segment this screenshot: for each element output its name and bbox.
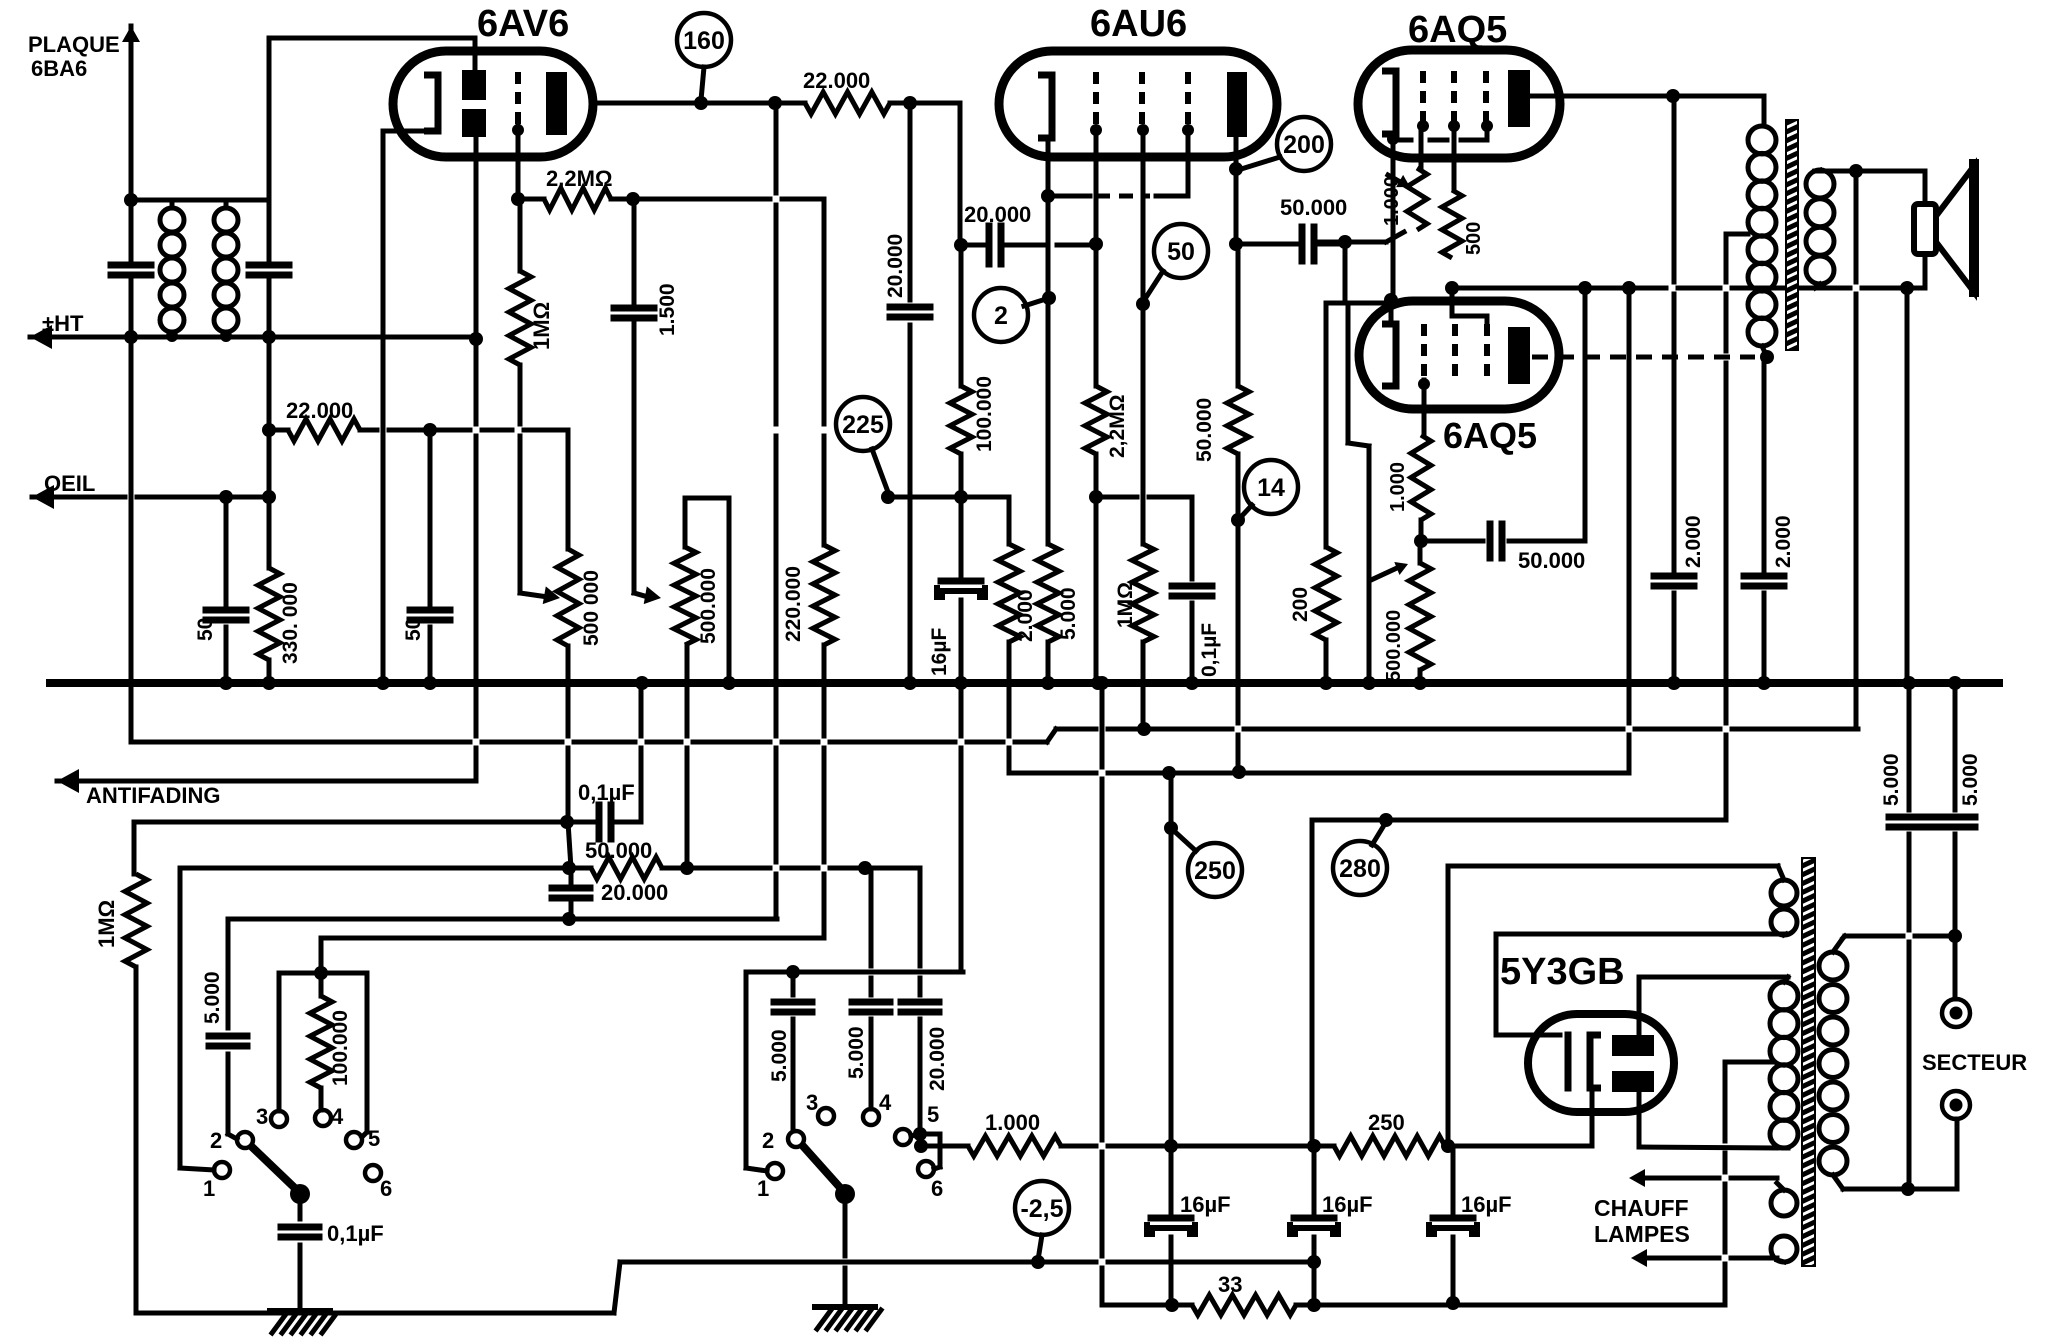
svg-text:5.000: 5.000 <box>1057 587 1080 640</box>
wire 6AU6 grid1 lead <box>1137 124 1149 544</box>
wire C16c chain <box>1312 1146 1317 1305</box>
svg-text:200: 200 <box>1289 587 1312 622</box>
leader 14 <box>1240 505 1252 518</box>
label 500.000 P3 <box>1383 610 1405 682</box>
junction dot (1448,1146) <box>1441 1139 1455 1153</box>
junction dot (865,868) <box>858 861 872 875</box>
circle tag -2,5 <box>1015 1181 1069 1235</box>
wire y=196 suppressor link <box>1048 194 1188 199</box>
junction dot (226,337) <box>220 330 232 342</box>
wire x=568 chain <box>568 683 571 919</box>
resistor R100000 sw1 <box>310 938 332 1110</box>
wire R5000 to bus <box>1046 642 1051 683</box>
speaker voice coil <box>1914 204 1936 254</box>
wire C16a to bus <box>959 600 964 683</box>
label 6AU6 <box>1090 3 1187 45</box>
svg-text:5.000: 5.000 <box>768 1029 791 1082</box>
capacitor C20000a <box>890 307 930 317</box>
label 22.000 b <box>286 398 353 423</box>
wire 5Y3 filament right lead <box>1590 1088 1595 1146</box>
wire rail Q 250V <box>1009 771 1629 776</box>
junction dot (1236,169) <box>1229 162 1243 176</box>
arrow R1000a <box>1388 175 1410 187</box>
svg-text:OEIL: OEIL <box>44 471 95 496</box>
circle tag 225 <box>836 397 890 451</box>
terminal SECTEUR 2 <box>1942 1091 1970 1119</box>
svg-text:6: 6 <box>931 1176 943 1201</box>
node PLAQUE arrow up <box>122 26 140 200</box>
switch S1 pin5 <box>346 1126 380 1151</box>
plate 6AQ5a <box>1508 70 1530 127</box>
cathode 6AU6 <box>1038 75 1052 138</box>
wire y=866 5V line <box>1448 864 1778 869</box>
junction dot (961,497) <box>954 490 968 504</box>
svg-text:LAMPES: LAMPES <box>1594 1221 1690 1247</box>
resistor R250 filter <box>1334 1136 1445 1156</box>
label 500 <box>1463 222 1485 255</box>
label 0,1uF 6AU6 <box>1198 623 1221 677</box>
label 2.000 b <box>1772 515 1795 568</box>
junction dot (1239,772) <box>1232 765 1246 779</box>
svg-text:250: 250 <box>1368 1110 1405 1135</box>
wire x=961 to 16uF <box>959 454 964 581</box>
wire PT 5V hooks <box>1778 866 1786 935</box>
wire H2 y=919 <box>228 917 777 922</box>
svg-text:50: 50 <box>1167 238 1195 266</box>
junction dot (1856,171) <box>1849 164 1863 178</box>
wire bottom left line <box>136 1262 620 1313</box>
wire grid1 6AQ5b lead <box>1418 378 1430 435</box>
junction dot (1767,357) <box>1760 350 1774 364</box>
grid2 6AQ5a dashed <box>1451 71 1457 122</box>
wire x=1764 2000b feed <box>1762 357 1767 570</box>
label 16uF a <box>928 628 951 676</box>
svg-text:2.000: 2.000 <box>1682 515 1705 568</box>
wire y=936 mains line <box>1845 934 1955 939</box>
capacitor C20000 sw2 <box>901 1002 939 1012</box>
circle tag 2 <box>974 288 1028 342</box>
svg-text:200: 200 <box>1283 131 1325 159</box>
wire x=430 to cap 50b <box>428 430 433 683</box>
potentiometer P3 500000 <box>1409 563 1431 670</box>
plates 5Y3 <box>1612 1035 1654 1092</box>
wire x=776 long vertical <box>774 103 779 919</box>
junction dot (910,103) <box>903 96 917 110</box>
wire R1M to wiper <box>518 365 523 593</box>
svg-text:6: 6 <box>380 1176 392 1201</box>
junction dot (226,497) <box>219 490 233 504</box>
wire PT primary hooks <box>1833 936 1845 1189</box>
label 5.000 cath <box>1057 587 1080 640</box>
junction dot (568,919) <box>562 912 576 926</box>
label 16uF b <box>1180 1192 1231 1217</box>
junction dot (1629,288) <box>1622 281 1636 295</box>
switch S2 pin2 <box>762 1128 804 1153</box>
junction dot (921,1146) <box>914 1139 928 1153</box>
switch S2 pin6 <box>918 1161 943 1201</box>
wire R220000 to H3 <box>822 645 827 938</box>
svg-text:4: 4 <box>331 1104 344 1129</box>
wire 5Y3 plate1 lead <box>1639 977 1788 1035</box>
plate blocks 6AV6 <box>462 70 486 137</box>
wire y=38 top link <box>269 36 475 41</box>
junction dot (1314,1262) <box>1307 1255 1321 1269</box>
wire grid2 6AQ5b lead <box>1450 288 1455 316</box>
label 50.000 b <box>1518 548 1585 573</box>
label 1.500 <box>656 283 679 336</box>
svg-text:50: 50 <box>194 618 217 641</box>
switch S2 rotor <box>802 1145 855 1204</box>
circle tag 160 <box>677 13 731 67</box>
wire R2000 to Q <box>1007 642 1012 773</box>
capacitor C16uF b <box>1147 1218 1195 1234</box>
wire 6AU6 cathode down <box>1046 196 1051 544</box>
label LAMPES <box>1594 1221 1690 1247</box>
svg-text:2: 2 <box>762 1128 774 1153</box>
grid2 6AU6 dashed <box>1139 72 1145 128</box>
cathode 6AQ5a <box>1382 71 1396 134</box>
label 1.000 6AQ5a <box>1381 176 1403 226</box>
wire link to bias line <box>920 1134 921 1146</box>
label SECTEUR <box>1922 1050 2027 1075</box>
wire 6AV6 grid lead <box>512 124 524 199</box>
label 2.000 <box>1014 589 1037 642</box>
wire main ground bus <box>50 679 1999 687</box>
junction dot (1954,683) <box>1948 676 1962 690</box>
wire R1000b to dot <box>1419 520 1424 541</box>
wire C16d chain <box>1451 1146 1456 1303</box>
grid1 6AU6 dashed <box>1093 72 1099 128</box>
wire 6AV6 cathode lead <box>383 131 438 683</box>
label 5.000 sw2b <box>845 1026 868 1079</box>
label 220.000 <box>782 566 805 642</box>
wire terminal1 riser <box>1953 936 1958 999</box>
leader -2,5 <box>1038 1235 1042 1260</box>
wire R2,2M down <box>1094 454 1099 683</box>
svg-text:50.000: 50.000 <box>1518 548 1585 573</box>
wire pin1 feed sw1 <box>180 868 214 1170</box>
wire x=1448 5V riser <box>1446 866 1451 1146</box>
junction dot (1102,683) <box>1095 676 1109 690</box>
wire x=1345 down <box>1343 242 1348 303</box>
wire P2 bottom to H1 <box>685 645 690 868</box>
tube V1 6AV6 envelope <box>393 51 593 157</box>
capacitor C50a <box>206 610 246 620</box>
filament 5Y3 <box>1568 1035 1601 1088</box>
circle tag 280 <box>1333 841 1387 895</box>
resistor R22000a <box>805 92 890 114</box>
leader 225 <box>872 449 888 492</box>
label 2,2MΩ 6AU6 <box>1106 394 1129 458</box>
junction dot (1192,683) <box>1185 676 1199 690</box>
label 20.000 b <box>964 202 1031 227</box>
junction dot (1314,1146) <box>1307 1139 1321 1153</box>
svg-text:16µF: 16µF <box>928 628 951 676</box>
switch S2 pin3 <box>806 1090 834 1124</box>
leader 2 <box>1024 298 1049 306</box>
wire y=242 grid line <box>1318 232 1404 242</box>
junction dot (1673,96) <box>1666 89 1680 103</box>
junction dot (1048,196) <box>1041 189 1055 203</box>
svg-text:6AV6: 6AV6 <box>477 3 569 45</box>
svg-text:0,1µF: 0,1µF <box>578 780 635 805</box>
circle tag 250 <box>1188 843 1242 897</box>
label 500 000 P1 <box>580 570 603 646</box>
wire wiper chain tube2 <box>1348 303 1369 683</box>
label 22.000 a <box>803 68 870 93</box>
svg-text:2: 2 <box>210 1128 222 1153</box>
wire 6AU6 grid3 lead <box>1182 124 1194 196</box>
svg-text:100.000: 100.000 <box>329 1010 352 1086</box>
junction dot (920,1134) <box>913 1127 927 1141</box>
svg-text:5: 5 <box>927 1102 939 1127</box>
junction dot (269,337) <box>262 330 276 344</box>
label 100.000 sw1 <box>329 1010 352 1086</box>
wire return line P <box>131 729 1858 742</box>
svg-text:0,1µF: 0,1µF <box>1198 623 1221 677</box>
label 6AQ5 top <box>1408 9 1507 51</box>
label 2.000 a <box>1682 515 1705 568</box>
junction dot (1048,683) <box>1041 676 1055 690</box>
resistor R220000 <box>813 545 835 645</box>
junction dot (642,683) <box>635 676 649 690</box>
junction dot (430,430) <box>423 423 437 437</box>
leader 160 <box>701 67 704 100</box>
coil PT heater <box>1771 1190 1797 1262</box>
junction dot (1585,288) <box>1578 281 1592 295</box>
junction dot (1420,683) <box>1413 676 1427 690</box>
wire rotor2 to ground <box>843 1194 848 1307</box>
svg-text:500 000: 500 000 <box>580 570 603 646</box>
resistor R50000 sw1 <box>591 857 662 879</box>
svg-text:220.000: 220.000 <box>782 566 805 642</box>
label 20.000 a vert <box>884 234 907 298</box>
wire y=430 left stub <box>269 428 288 433</box>
arrow P3 wiper <box>1371 562 1408 580</box>
wire x=824 plate load line <box>822 199 827 545</box>
wire y=199 grid line <box>518 197 824 202</box>
switch S1 pin1 <box>203 1162 230 1201</box>
grid3 6AQ5b dashed <box>1484 324 1490 380</box>
resistor R2,2M top <box>544 188 611 210</box>
junction dot (321,973) <box>314 966 328 980</box>
label 2,2MΩ top <box>546 166 613 191</box>
capacitor C0,1 a <box>567 805 641 839</box>
wire voice coil leads <box>1923 171 1928 288</box>
terminal SECTEUR 1 <box>1942 999 1970 1027</box>
potentiometer P1 500000 <box>557 430 579 683</box>
wire x=269 down from top <box>267 38 272 259</box>
ground G2 <box>815 1307 881 1329</box>
svg-text:5.000: 5.000 <box>1880 753 1903 806</box>
wire 5Y3 plate2 lead <box>1639 1092 1788 1148</box>
wire y=822 line <box>134 820 567 825</box>
label 50.000 coupling <box>1280 195 1347 220</box>
wire OT tap <box>1726 232 1748 237</box>
junction dot (1908,1189) <box>1901 1182 1915 1196</box>
leader 200 <box>1238 157 1280 170</box>
switch S1 pin3 <box>256 1104 287 1129</box>
plate 6AQ5b <box>1508 327 1530 384</box>
svg-text:2,2MΩ: 2,2MΩ <box>546 166 613 191</box>
junction dot (1049,298) <box>1042 291 1056 305</box>
wire plate 6AQ5a lead <box>1530 94 1764 99</box>
svg-text:22.000: 22.000 <box>286 398 353 423</box>
label 0,1uF a <box>578 780 635 805</box>
node ANTIFADING arrow <box>57 769 220 808</box>
wire OT tap down x=1726 <box>1724 234 1729 816</box>
svg-text:5.000: 5.000 <box>1959 753 1982 806</box>
wire y=1305 line <box>1102 1303 1725 1308</box>
coil OT secondary <box>1806 170 1834 284</box>
label 1MΩ 6AV6 <box>529 302 554 350</box>
junction dot (687,868) <box>680 861 694 875</box>
junction dot (1345,242) <box>1338 235 1352 249</box>
svg-text:50.000: 50.000 <box>585 838 652 863</box>
capacitor C5000 sw2a <box>774 1002 812 1012</box>
wire rotor1 down <box>298 1194 303 1219</box>
tube V5 5Y3GB envelope <box>1528 1014 1674 1112</box>
wire pin2 feed sw1 <box>228 919 237 1139</box>
wire y=430 to pot1 <box>360 428 568 433</box>
capacitor C16uF d <box>1429 1218 1477 1234</box>
svg-text:-2,5: -2,5 <box>1020 1195 1063 1223</box>
wire y=820 280 line <box>1312 818 1726 823</box>
resistor R50000 6AU6 <box>1227 244 1249 454</box>
junction dot (1314,1305) <box>1307 1298 1321 1312</box>
wire PT heater hooks <box>1777 1183 1784 1262</box>
capacitor C-IF2 <box>249 265 289 275</box>
junction dot (961,683) <box>954 676 968 690</box>
svg-text:2: 2 <box>994 302 1008 330</box>
svg-text:20.000: 20.000 <box>884 234 907 298</box>
wire pin4 feed sw2 <box>869 868 874 1109</box>
coil PT HV <box>1770 982 1798 1148</box>
junction dot (518,199) <box>511 192 525 206</box>
junction dot (1391,300) <box>1384 293 1398 307</box>
circle tag 14 <box>1244 460 1298 514</box>
wire 6AU6 plate lead <box>1234 137 1239 244</box>
svg-text:1.000: 1.000 <box>1387 462 1409 512</box>
wire screens feed x=1629 <box>1627 288 1632 773</box>
label 250 filter <box>1368 1110 1405 1135</box>
resistor R2,2M 6AU6 <box>1085 386 1107 454</box>
node OEIL arrow and label <box>32 471 95 509</box>
svg-text:16µF: 16µF <box>1461 1192 1512 1217</box>
label 1MΩ left <box>94 900 119 948</box>
junction dot (1171,1146) <box>1164 1139 1178 1153</box>
svg-text:225: 225 <box>842 411 884 439</box>
wire screens line y=288 <box>1452 286 1806 291</box>
wire OT primary bottom <box>1762 346 1767 357</box>
cathode 6AV6 <box>424 75 438 131</box>
wire OT sec top <box>1815 170 1925 171</box>
wire R200 to bus <box>1324 640 1329 683</box>
svg-text:50: 50 <box>402 618 425 641</box>
wire cathode 6AQ5b entry <box>1389 300 1394 324</box>
label 50 C50a <box>194 618 217 641</box>
junction dot (1907,288) <box>1900 281 1914 295</box>
junction dot (1326,683) <box>1319 676 1333 690</box>
speaker cone <box>1936 164 1974 292</box>
svg-text:5.000: 5.000 <box>845 1026 868 1079</box>
wire plate 6AQ5b dashed <box>1532 355 1755 360</box>
label 100.000 <box>973 376 996 452</box>
junction dot (1096,683) <box>1091 676 1105 690</box>
grid1 6AQ5b dashed <box>1421 324 1427 380</box>
label 0,1uF b <box>327 1221 384 1246</box>
wire 6AU6 grid2 lead <box>1090 124 1102 386</box>
junction dot (775,103) <box>768 96 782 110</box>
ground G1 <box>270 1311 336 1333</box>
core OT <box>1786 120 1798 350</box>
wire x=910 to cap 20000a <box>908 103 913 683</box>
wire y=245 link <box>961 243 1096 248</box>
junction dot cathode 6AQ5a <box>1387 133 1399 145</box>
svg-text:16µF: 16µF <box>1180 1192 1231 1217</box>
junction dot (1238,520) <box>1231 513 1245 527</box>
label 5.000 right a <box>1880 753 1903 806</box>
grid dots 6AQ5a <box>1417 120 1493 132</box>
switch S1 pin6 <box>365 1165 392 1201</box>
capacitor C50000 b <box>1421 524 1585 558</box>
label 33 <box>1218 1272 1242 1297</box>
junction dot (568,868) <box>562 861 576 875</box>
coil L1 primary IF1 <box>160 208 184 332</box>
tube V3 6AQ5 envelope <box>1358 50 1560 158</box>
junction dot (1145,729) <box>1137 722 1151 736</box>
resistor R1000 filter <box>968 1136 1061 1156</box>
label 6AQ5 bottom <box>1443 415 1537 456</box>
coil PT 5V <box>1771 880 1797 935</box>
svg-text:330. 000: 330. 000 <box>279 582 302 664</box>
capacitor C50b <box>410 610 450 620</box>
junction dot (1172,1305) <box>1165 1298 1179 1312</box>
wire y=934 5V return <box>1496 934 1786 1035</box>
bus dots left <box>219 676 276 690</box>
potentiometer P2 500000 <box>674 498 696 645</box>
svg-text:33: 33 <box>1218 1272 1242 1297</box>
capacitor C0,1 b <box>281 1227 319 1237</box>
junction dot (1421,541) <box>1414 534 1428 548</box>
junction dot (1143,304) <box>1136 297 1150 311</box>
resistor R1M 6AV6 <box>509 199 531 365</box>
wire coil L2 leads <box>224 202 229 337</box>
svg-text:100.000: 100.000 <box>973 376 996 452</box>
inner bar 6AQ5a <box>1393 130 1487 140</box>
wire R330000 to bus <box>267 660 272 683</box>
leader 250 <box>1173 830 1196 851</box>
svg-text:PLAQUE: PLAQUE <box>28 32 120 57</box>
tube V2 6AU6 envelope <box>999 51 1277 157</box>
wiper pot1 <box>520 586 560 604</box>
wire y=1262 line <box>620 1260 1314 1265</box>
resistor R2000 <box>998 544 1020 642</box>
svg-text:SECTEUR: SECTEUR <box>1922 1050 2027 1075</box>
svg-text:5: 5 <box>368 1126 380 1151</box>
wire CHAUFF arrow 1 <box>1629 1169 1777 1187</box>
junction dot (430,683) <box>423 676 437 690</box>
wire C16b down <box>1169 1237 1174 1305</box>
capacitor C16uF a <box>937 581 985 597</box>
svg-text:CHAUFF: CHAUFF <box>1594 1195 1689 1221</box>
junction dot (1386,820) <box>1379 813 1393 827</box>
wire coil L1 leads <box>170 202 175 337</box>
resistor R1M left <box>125 822 147 967</box>
wire y=497 left <box>888 495 1009 500</box>
wire 16uFb riser <box>1169 773 1174 1218</box>
switch S1 pin4 <box>315 1104 344 1129</box>
